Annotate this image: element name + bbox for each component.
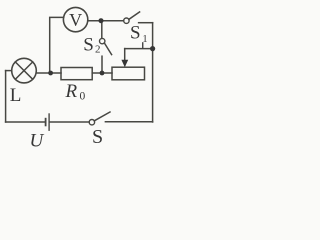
switch S1	[124, 12, 153, 24]
rheostat slider arrowhead	[121, 60, 128, 67]
wire	[152, 23, 154, 49]
svg-text:R: R	[65, 81, 78, 102]
svg-text:S2: S2	[83, 34, 100, 55]
battery U	[46, 114, 90, 130]
wire	[5, 71, 7, 122]
wire stub under S1 label	[142, 42, 143, 48]
wire	[152, 49, 154, 122]
svg-text:S: S	[92, 126, 103, 148]
switch S2	[100, 21, 112, 73]
svg-text:0: 0	[80, 91, 86, 103]
wire	[36, 72, 61, 74]
wire	[50, 17, 64, 73]
wire	[92, 72, 112, 74]
rheostat R	[112, 49, 153, 80]
svg-text:S1: S1	[130, 23, 148, 46]
lamp L	[6, 58, 37, 83]
wire	[88, 20, 124, 22]
svg-text:L: L	[10, 85, 22, 106]
voltmeter V	[63, 7, 87, 31]
svg-text:U: U	[30, 131, 45, 150]
wire	[6, 121, 45, 123]
node C	[48, 71, 53, 76]
node D	[100, 71, 105, 76]
switch S	[89, 112, 152, 125]
node A	[99, 18, 104, 23]
node B	[150, 46, 155, 51]
svg-text:V: V	[69, 10, 82, 30]
resistor R0	[61, 68, 92, 80]
